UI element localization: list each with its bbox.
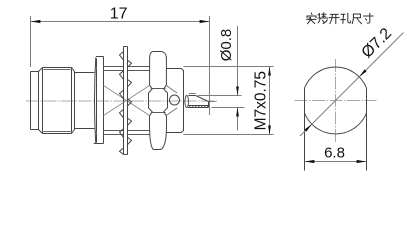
flange rim arc <box>95 57 96 143</box>
svg-text:Ø7.2: Ø7.2 <box>359 25 396 62</box>
dimension 6.8 arrow left <box>305 160 315 163</box>
dia 0.8 stub line <box>210 101 216 103</box>
char chi <box>352 14 361 24</box>
flange rim chamfer lines <box>94 66 97 134</box>
right view title 安装开孔尺寸 <box>307 13 374 24</box>
thread cross lines <box>104 86 150 116</box>
pin inner top line <box>189 93 196 95</box>
washer teeth left <box>120 52 124 155</box>
hole flat left and extension line <box>304 88 306 171</box>
char kai <box>329 14 339 23</box>
dimension 17 extension line right <box>209 16 211 115</box>
dia 7.2 arrow top right <box>359 69 367 77</box>
M7 extension line bottom <box>184 134 274 136</box>
hex nut internal horizontal edges <box>151 89 166 113</box>
barrel <box>43 68 72 134</box>
dia 0.8 arrow up <box>236 108 239 117</box>
dimension 6.8 arrow right <box>357 160 367 163</box>
dimension 17 arrow left <box>31 20 41 23</box>
dia 0.8 dimension line upper <box>237 26 239 95</box>
pin rounded cap <box>185 96 189 108</box>
dimension 17 extension line left <box>30 16 32 67</box>
barrel chamfer inner lines <box>44 70 71 132</box>
washer teeth right <box>128 60 132 145</box>
svg-text:6.8: 6.8 <box>324 145 345 162</box>
char kong <box>341 13 351 23</box>
thread crest bottom lines <box>104 131 150 135</box>
hex nut silhouette <box>149 52 168 150</box>
shank internal chamfer edges <box>166 85 178 116</box>
char an <box>307 13 317 24</box>
char cun <box>363 13 373 23</box>
dimension 17 arrow right <box>200 20 210 23</box>
hole flat right and extension line <box>366 88 368 171</box>
dia 0.8 extension line top <box>198 95 242 97</box>
shank cylinder <box>167 69 184 133</box>
barrel right chamfer <box>72 68 75 134</box>
svg-text:Ø0.8: Ø0.8 <box>218 29 235 62</box>
svg-text:M7x0.75: M7x0.75 <box>253 71 270 130</box>
pin hatch <box>189 106 208 108</box>
dia 0.8 dimension line lower <box>237 108 239 131</box>
centerline left view <box>26 100 218 102</box>
serrated washer strip <box>124 47 128 155</box>
neck <box>75 72 96 130</box>
cone cap to barrel <box>39 68 43 134</box>
pin body <box>188 96 209 108</box>
dimension 17 line <box>31 21 210 23</box>
dia 7.2 leader line <box>300 33 404 137</box>
char zhuang <box>318 13 328 24</box>
connector end cap <box>31 72 39 130</box>
svg-text:17: 17 <box>110 6 128 23</box>
mounting hole circle with flats <box>305 67 367 134</box>
right view horizontal centerline <box>295 100 377 102</box>
M7 dimension line <box>269 67 271 135</box>
shank circle <box>170 95 180 105</box>
dia 0.8 arrow down <box>236 87 239 96</box>
M7 arrow down <box>268 126 271 135</box>
flange body <box>94 57 104 144</box>
thread crest top lines <box>104 67 150 71</box>
M7 extension line top <box>184 66 274 68</box>
dimension 6.8 line <box>305 161 367 163</box>
right view vertical centerline <box>335 59 337 143</box>
dia 0.8 extension line bottom <box>212 107 245 109</box>
dia 7.2 arrow bottom left <box>304 124 312 132</box>
M7 arrow up <box>268 67 271 76</box>
